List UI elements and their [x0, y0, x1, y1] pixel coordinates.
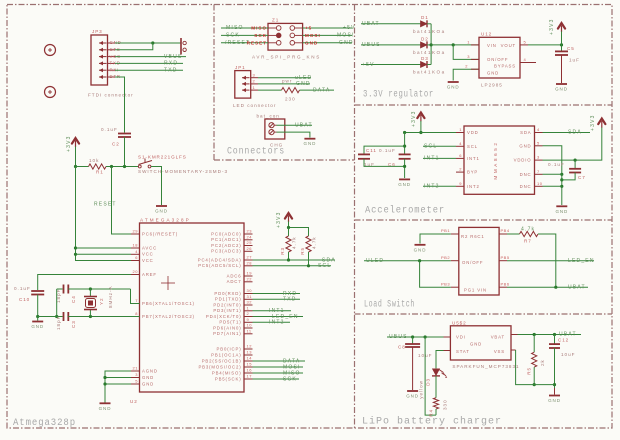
divider connectors box left — [213, 5, 215, 161]
svg-text:4.7k: 4.7k — [521, 227, 535, 233]
wire VBAT lipo — [518, 334, 582, 336]
junction C7 — [574, 159, 577, 162]
svg-text:SCL: SCL — [467, 144, 478, 149]
wire DNC2 to gnd rail — [543, 185, 562, 187]
svg-text:16: 16 — [247, 368, 253, 373]
ATmega origin cross — [161, 282, 175, 284]
bat_con pad 1 — [269, 123, 274, 128]
ATmega pin 5 GND — [131, 383, 140, 385]
svg-text:C10: C10 — [19, 297, 30, 302]
junction VIN/ONOFF — [452, 43, 455, 46]
wire Z1 to +5V — [303, 27, 352, 29]
svg-text:DATA: DATA — [313, 87, 330, 93]
ATmega pin 21 AGND — [131, 370, 140, 372]
svg-text:uLED: uLED — [295, 75, 312, 81]
load switch pin PB6 right — [499, 286, 507, 288]
svg-text:VCC: VCC — [142, 252, 154, 257]
JP3 pin RXI — [99, 69, 107, 71]
svg-text:VDDIO: VDDIO — [514, 158, 532, 163]
capacitor C6 1uF — [399, 153, 411, 155]
connector Z1 AVR_SPI_PRG box — [268, 23, 303, 50]
svg-text:GND: GND — [99, 406, 112, 411]
ATmega pin 29 PC6(/RESET) — [131, 233, 140, 235]
svg-text:GND: GND — [414, 247, 427, 252]
junction crystal top — [89, 287, 92, 290]
wire +3V3 to VOUT — [561, 32, 563, 52]
wire DNC1 to gnd rail — [543, 173, 562, 175]
Z1 pad1 fill — [276, 33, 281, 38]
resistor R1 10k pullup — [76, 166, 89, 168]
ATmega pin 31 PD1(TXD) — [244, 298, 253, 300]
MMA8652 pin INT2 — [456, 185, 464, 187]
connector bat_con box — [265, 119, 285, 139]
wire net INT2 — [253, 321, 291, 323]
divider regulator/accelerometer — [355, 104, 613, 106]
bat_con pad 2 — [269, 130, 274, 135]
svg-text:17: 17 — [247, 374, 253, 379]
svg-text:MISO: MISO — [226, 25, 244, 31]
wire C4 to crystal top — [68, 288, 130, 290]
MMA8652 pin GND right — [535, 145, 543, 147]
svg-text:2: 2 — [253, 79, 256, 84]
svg-text:ULED: ULED — [366, 258, 384, 264]
junction cap bottom — [403, 165, 406, 168]
ground switch — [156, 205, 167, 207]
wire R2 to DATA — [300, 89, 335, 91]
IC U5 MCP73831 box — [450, 326, 511, 360]
svg-text:32: 32 — [247, 300, 253, 305]
svg-text:R7: R7 — [524, 239, 532, 244]
svg-text:7: 7 — [135, 298, 138, 303]
wire diode D2 out — [427, 44, 431, 46]
svg-text:6: 6 — [459, 153, 462, 158]
svg-text:11: 11 — [247, 329, 252, 334]
wire ON/OFF — [453, 45, 479, 60]
svg-text:INT2: INT2 — [424, 184, 440, 190]
MMA8652 pin BYP — [456, 171, 464, 173]
capacitor C4 18pF — [63, 285, 65, 294]
svg-text:8MHz-A: 8MHz-A — [108, 285, 113, 308]
svg-text:INT1: INT1 — [467, 156, 480, 161]
junction cap top rail — [403, 145, 406, 148]
svg-text:4: 4 — [459, 141, 462, 146]
svg-text:D1: D1 — [421, 15, 429, 20]
svg-text:DNC: DNC — [520, 184, 532, 189]
wire LED_EN — [507, 260, 594, 262]
wire GND from JP3 — [115, 42, 181, 44]
IC Q3 load switch box — [459, 227, 499, 295]
svg-text:U2: U2 — [130, 399, 138, 404]
IC U2 ATMEGA328P box — [140, 223, 245, 392]
svg-text:1: 1 — [253, 85, 256, 90]
svg-text:23: 23 — [247, 229, 253, 234]
junction pullup left — [287, 226, 290, 229]
JP1 pin 1 — [242, 89, 250, 91]
ground C10 — [37, 317, 39, 321]
svg-text:JP1: JP1 — [235, 65, 246, 70]
svg-text:UBUS: UBUS — [389, 334, 408, 340]
MMA8652 pin DNC right — [535, 185, 543, 187]
svg-text:PD0(RXD): PD0(RXD) — [214, 291, 241, 296]
svg-text:31: 31 — [247, 294, 253, 299]
junction RESET net — [110, 165, 113, 168]
svg-text:9: 9 — [459, 181, 462, 186]
ground accel caps — [399, 178, 410, 180]
svg-text:BYP: BYP — [467, 170, 478, 175]
svg-text:TXD: TXD — [283, 297, 297, 303]
wire VOUT to C5 — [528, 44, 562, 46]
capacitor C3 18pF — [63, 312, 65, 321]
JP1 pin 3 — [242, 77, 250, 79]
svg-text:yellow: yellow — [419, 380, 424, 399]
ATmega pin 20 AREF — [131, 274, 140, 276]
svg-text:VDD: VDD — [467, 130, 479, 135]
svg-text:330: 330 — [443, 399, 448, 410]
svg-text:3.3V regulator: 3.3V regulator — [363, 89, 434, 101]
svg-text:14: 14 — [247, 356, 253, 361]
svg-text:GND: GND — [548, 398, 561, 403]
svg-text:GND: GND — [447, 85, 460, 90]
svg-text:VBUS: VBUS — [164, 54, 182, 60]
divider accelerometer/load-switch — [355, 219, 613, 221]
wire Z1 to GND — [303, 42, 352, 44]
svg-text:R5: R5 — [527, 367, 532, 375]
svg-text:GND: GND — [555, 87, 568, 92]
svg-text:VDI: VDI — [456, 335, 466, 340]
ATmega pin 24 PC1(ADC1) — [244, 239, 253, 241]
svg-text:AGND: AGND — [142, 368, 158, 373]
svg-text:4: 4 — [524, 57, 527, 62]
capacitor C12 10uF — [554, 335, 556, 345]
svg-text:ON/OFF: ON/OFF — [487, 57, 508, 62]
wire gnd vertical left — [56, 289, 58, 317]
ATmega pin 22 ADC7 — [244, 281, 253, 283]
junction GND/CTS — [151, 41, 154, 44]
svg-text:PB1(OC1A): PB1(OC1A) — [211, 352, 241, 357]
divider load-switch/lipo — [355, 313, 613, 315]
svg-text:STAT: STAT — [456, 349, 470, 354]
svg-text:MOSI: MOSI — [305, 33, 321, 38]
svg-text:4.7k: 4.7k — [312, 236, 317, 249]
svg-text:C5: C5 — [567, 46, 575, 51]
svg-text:7: 7 — [537, 169, 540, 174]
resistor R5 4.7k SCL pullup — [306, 236, 311, 252]
svg-text:ADC7: ADC7 — [227, 279, 242, 284]
junction SDA — [287, 258, 290, 261]
svg-text:MISO: MISO — [251, 26, 267, 31]
ATmega pin 8 PB7(XTAL2/TOSC2) — [131, 316, 140, 318]
wire VBUS lipo — [387, 336, 444, 338]
junction lipo gnd rail — [553, 383, 556, 386]
ATmega pin 13 PB1(OC1A) — [244, 354, 253, 356]
svg-text:AVCC: AVCC — [142, 245, 157, 250]
svg-text:2: 2 — [247, 311, 250, 316]
capacitor C5 1uF — [555, 50, 568, 52]
wire VDDIO to +3V3 — [543, 127, 602, 160]
svg-text:PD1(TXD): PD1(TXD) — [215, 297, 242, 302]
svg-text:GND: GND — [519, 143, 531, 148]
svg-text:PD4(XCK/T0): PD4(XCK/T0) — [206, 314, 242, 319]
svg-text:26: 26 — [247, 246, 253, 251]
svg-text:4: 4 — [537, 127, 540, 132]
capacitor C11 0.1uF — [358, 153, 370, 155]
wire AVCC — [76, 247, 132, 249]
junction DNC2 — [560, 185, 563, 188]
svg-text:PB4(MISO): PB4(MISO) — [212, 370, 242, 375]
svg-text:3: 3 — [135, 372, 138, 377]
junction GND pin5 — [103, 382, 106, 385]
wire switch to GND — [151, 167, 162, 206]
svg-text:U5$2: U5$2 — [452, 320, 467, 325]
ground C5 — [556, 83, 567, 85]
svg-text:230: 230 — [285, 96, 296, 101]
svg-text:ATMEGA328P: ATMEGA328P — [140, 218, 191, 223]
svg-text:10uF: 10uF — [561, 352, 575, 357]
load switch pin PB3 — [451, 286, 459, 288]
wire Z1 to MOSI — [303, 34, 352, 36]
connector J4 serial-GND 2pin — [180, 38, 182, 55]
svg-text:GND: GND — [487, 71, 499, 76]
svg-text:S1-KMR221GLFS: S1-KMR221GLFS — [138, 154, 187, 159]
junction VBAT load switch — [554, 286, 557, 289]
wire net SDA — [253, 259, 336, 261]
svg-text:PB3(MOSI/OC2): PB3(MOSI/OC2) — [198, 364, 241, 369]
svg-text:UBAT: UBAT — [568, 284, 586, 290]
IC U12 LP2985 box — [479, 37, 520, 78]
svg-text:GND: GND — [398, 182, 411, 187]
svg-text:PG1 VIN: PG1 VIN — [464, 288, 487, 293]
wire net MISO — [253, 372, 304, 374]
JP3 pin TXD — [99, 62, 107, 64]
svg-text:PD5(T1): PD5(T1) — [219, 320, 241, 325]
wire MISO to Z1 — [221, 27, 268, 29]
svg-text:PB3: PB3 — [441, 281, 450, 286]
svg-text:TXD: TXD — [164, 67, 178, 73]
supply +3V3 reset — [72, 138, 79, 144]
wire /RESET to Z1 — [221, 42, 268, 44]
svg-text:PC6(/RESET): PC6(/RESET) — [142, 231, 178, 236]
JP3 pin VCC — [99, 56, 107, 58]
capacitor C10 0.1uF AREF — [38, 275, 131, 291]
junction DNC1 — [560, 173, 563, 176]
svg-text:LED_EN: LED_EN — [568, 258, 595, 264]
svg-text:JP3: JP3 — [92, 29, 103, 34]
svg-text:1: 1 — [467, 39, 470, 44]
diode D3 BAT41 — [421, 62, 428, 68]
wire VDD rail — [405, 132, 456, 134]
ATmega pin 18 AVCC — [131, 247, 140, 249]
svg-text:ON/OFF: ON/OFF — [462, 260, 483, 265]
capacitor C2 0.1uF — [118, 133, 131, 135]
svg-text:SCL: SCL — [424, 144, 437, 150]
junction cap C7 return — [560, 178, 563, 181]
svg-text:VCC: VCC — [142, 258, 154, 263]
ground accel — [556, 205, 567, 207]
svg-text:0.1uF: 0.1uF — [14, 286, 31, 291]
svg-text:GND: GND — [305, 40, 318, 45]
divider connectors box bottom — [214, 159, 355, 161]
wire cap vertical — [404, 133, 406, 155]
svg-text:MOSI: MOSI — [337, 33, 355, 39]
svg-text:SCK: SCK — [283, 376, 297, 382]
svg-text:R2 R6C1: R2 R6C1 — [461, 234, 485, 239]
wire VBAT load switch — [507, 286, 588, 288]
wire xtal2 rail — [68, 316, 139, 318]
svg-text:SCL: SCL — [318, 263, 331, 269]
ground C12 — [554, 388, 556, 395]
svg-text:20: 20 — [133, 269, 139, 274]
svg-text:INT2: INT2 — [269, 320, 285, 326]
ATmega pin 30 PD0(RXD) — [244, 293, 253, 295]
svg-text:U12: U12 — [481, 32, 492, 37]
svg-text:PB0(ICP): PB0(ICP) — [217, 346, 242, 351]
wire VIN — [431, 44, 479, 46]
wire ULED to pin3 — [420, 261, 451, 288]
ATmega pin 25 PC2(ADC2) — [244, 245, 253, 247]
wire C12 down — [554, 348, 556, 388]
ground load switch — [415, 244, 426, 246]
wire SDA accel — [543, 132, 591, 134]
junction crystal bottom — [89, 315, 92, 318]
svg-text:D2: D2 — [421, 36, 429, 41]
svg-text:4: 4 — [135, 249, 138, 254]
ATmega pin 27 PC4(ADC4/SDA) — [244, 259, 253, 261]
wire cap bottom rail — [364, 159, 405, 167]
svg-text:GND: GND — [304, 141, 317, 146]
svg-text:0.1uF: 0.1uF — [101, 127, 118, 132]
wire +3V3 to reset rail — [75, 147, 77, 167]
junction C10 gnd — [36, 315, 39, 318]
svg-text:+3V3: +3V3 — [276, 211, 282, 228]
svg-text:25: 25 — [247, 240, 253, 245]
load switch pin PB4 right — [499, 233, 507, 235]
svg-text:PC4(ADC4/SDA): PC4(ADC4/SDA) — [198, 257, 242, 262]
svg-text:4.7k: 4.7k — [292, 236, 297, 249]
svg-text:10: 10 — [247, 323, 253, 328]
ATmega pin 14 PB2(SS/OC1B) — [244, 360, 253, 362]
wire C8 to gnd — [412, 347, 414, 390]
svg-text:UBUS: UBUS — [362, 42, 381, 48]
junction C5 — [560, 43, 563, 46]
resistor R4 330 — [433, 398, 438, 409]
ATmega pin 6 VCC — [131, 260, 140, 262]
diode D2 BAT41 — [421, 42, 428, 48]
ATmega pin 12 PB0(ICP) — [244, 348, 253, 350]
svg-text:FTDI connector: FTDI connector — [88, 93, 134, 98]
svg-text:D3: D3 — [421, 56, 429, 61]
svg-text:RESET: RESET — [94, 202, 117, 208]
svg-text:10k: 10k — [89, 158, 99, 163]
wire gnd rail to C3 — [38, 316, 63, 318]
JP3 pin GND — [99, 42, 107, 44]
svg-text:2: 2 — [459, 167, 462, 172]
svg-text:SDA: SDA — [520, 130, 531, 135]
wire C2 to reset line — [124, 137, 126, 167]
svg-text:3: 3 — [467, 54, 470, 59]
wire diode D3 out — [427, 64, 431, 66]
svg-text:RXD: RXD — [164, 61, 178, 67]
svg-text:PB5: PB5 — [501, 255, 510, 260]
ATmega pin 16 PB4(MISO) — [244, 372, 253, 374]
wire bat_con VBAT — [277, 124, 313, 126]
svg-text:GND: GND — [406, 394, 419, 399]
svg-text:Connectors: Connectors — [227, 147, 285, 158]
MMA8652 pin SDA right — [535, 132, 543, 134]
svg-text:PC2(ADC2): PC2(ADC2) — [211, 243, 241, 248]
svg-text:3: 3 — [537, 155, 540, 160]
wire net LED_EN — [253, 316, 304, 318]
svg-text:PB2(SS/OC1B): PB2(SS/OC1B) — [202, 358, 242, 363]
junction VCC1 — [74, 253, 77, 256]
wire cap top rail — [364, 146, 405, 154]
wire LED to R4 — [435, 376, 437, 398]
wire net RXD — [253, 293, 301, 295]
svg-text:6: 6 — [135, 255, 138, 260]
svg-text:29: 29 — [133, 229, 139, 234]
svg-text:0.1uF: 0.1uF — [548, 162, 565, 167]
svg-text:Load Switch: Load Switch — [364, 299, 415, 311]
svg-text:VOUT: VOUT — [501, 43, 516, 48]
wire JP1 GND — [258, 83, 310, 85]
svg-text:Atmega328p: Atmega328p — [13, 418, 76, 429]
svg-text:UBAT: UBAT — [362, 21, 380, 27]
svg-text:C2: C2 — [112, 142, 120, 147]
resistor R5 2k prog — [533, 335, 535, 353]
ground bat_con — [304, 138, 315, 140]
svg-text:INT2: INT2 — [467, 184, 480, 189]
wire VCC net VBUS — [115, 56, 186, 58]
wire C10 to gnd rail — [37, 295, 39, 317]
svg-text:18pF: 18pF — [56, 316, 61, 330]
svg-text:18: 18 — [133, 243, 139, 248]
wire C5 to gnd — [561, 55, 563, 83]
svg-text:12: 12 — [247, 344, 253, 349]
svg-text:13: 13 — [247, 350, 253, 355]
wire AGND rail — [105, 371, 131, 403]
wire load switch pin1 to GND — [420, 234, 451, 244]
svg-text:28: 28 — [247, 261, 253, 266]
ground C8 — [407, 390, 418, 392]
svg-text:GND: GND — [142, 375, 154, 380]
svg-text:1: 1 — [247, 306, 250, 311]
wire bat_con to GND — [277, 132, 310, 137]
svg-text:R1: R1 — [96, 170, 104, 175]
ATmega pin 3 GND — [131, 377, 140, 379]
svg-text:5: 5 — [537, 140, 540, 145]
wire resistor to switch — [106, 166, 139, 168]
svg-text:C3: C3 — [71, 320, 76, 328]
junction gnd rail — [55, 315, 58, 318]
ATmega pin 4 VCC — [131, 253, 140, 255]
svg-text:PB6(XTAL1/TOSC1): PB6(XTAL1/TOSC1) — [142, 301, 195, 306]
svg-text:GND: GND — [296, 81, 311, 87]
svg-text:C12: C12 — [558, 338, 569, 343]
ATmega pin 23 PC0(ADC0) — [244, 233, 253, 235]
LED D3 charge status — [433, 369, 440, 376]
svg-text:+3V3: +3V3 — [66, 135, 72, 152]
diode D1 BAT41 — [421, 21, 428, 27]
svg-text:GND: GND — [339, 40, 354, 46]
svg-text:27: 27 — [247, 255, 253, 260]
svg-text:PB5(SCK): PB5(SCK) — [215, 376, 242, 381]
junction C8 — [411, 335, 414, 338]
junction LED column — [424, 335, 427, 338]
wire DTR down to C2 — [115, 77, 125, 133]
MMA8652 pin VDD — [456, 132, 464, 134]
svg-text:Z1: Z1 — [272, 18, 279, 23]
MMA8652 pin VDDIO right — [535, 159, 543, 161]
ATmega pin 19 ADC6 — [244, 275, 253, 277]
